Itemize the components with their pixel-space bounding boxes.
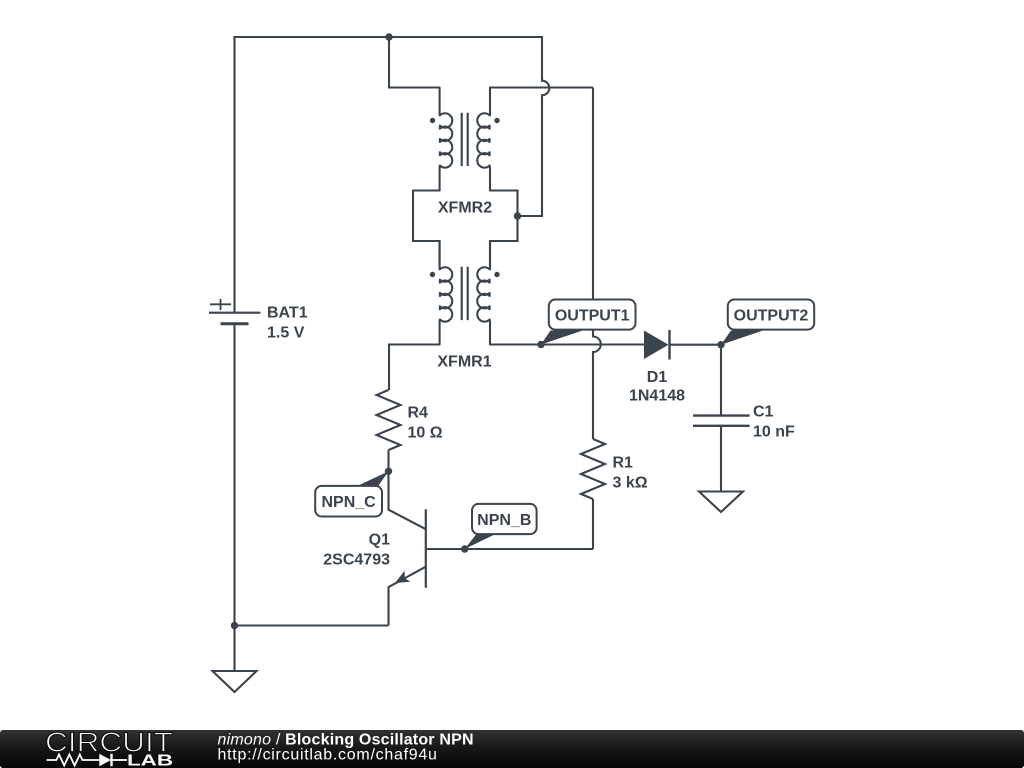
logo resistor diode glyph — [47, 754, 127, 766]
ground right symbol — [699, 492, 743, 513]
svg-text:BAT1: BAT1 — [267, 305, 308, 322]
transistor Q1 emitter arrow — [395, 571, 411, 583]
transformer XFMR1 phase dot left — [430, 272, 435, 277]
svg-text:D1: D1 — [647, 369, 668, 386]
transformer XFMR1 core — [462, 267, 468, 320]
node junction dot top — [385, 33, 392, 40]
svg-text:10 nF: 10 nF — [753, 424, 795, 441]
diode D1 cathode bar — [668, 330, 670, 360]
transistor Q1 collector lead — [389, 471, 426, 529]
resistor R4 — [377, 390, 401, 450]
wire D1 to OUTPUT2 node — [670, 344, 722, 346]
transformer XFMR1 phase dot right — [494, 272, 499, 277]
svg-text:1N4148: 1N4148 — [629, 388, 685, 405]
wire bracket right XFMR2 to XFMR1 — [490, 191, 518, 267]
transformer XFMR2 phase dot right — [494, 118, 499, 123]
wire from top node to XFMR2 left terminal — [389, 37, 440, 88]
transformer XFMR2 right winding — [477, 113, 490, 191]
wire right bus vertical with hop over output wire — [593, 88, 601, 440]
svg-text:2SC4793: 2SC4793 — [323, 552, 390, 569]
svg-text:R4: R4 — [408, 405, 429, 422]
svg-text:NPN_C: NPN_C — [321, 494, 376, 511]
transformer XFMR2 left winding — [440, 88, 453, 191]
transformer XFMR1 right winding — [477, 241, 490, 345]
transformer XFMR2 core — [462, 113, 468, 166]
wire bracket left XFMR2 to XFMR1 — [413, 191, 440, 267]
transistor Q1 base lead — [426, 548, 593, 550]
battery BAT1 top plate — [209, 312, 261, 314]
svg-text:XFMR1: XFMR1 — [437, 354, 491, 371]
wire emitter to battery minus — [235, 624, 389, 626]
flag OUTPUT2 — [721, 300, 814, 345]
flag NPN_B — [465, 504, 537, 549]
ground left stem — [233, 626, 235, 672]
battery BAT1 plus sign — [210, 299, 231, 311]
wire top horizontal — [235, 36, 543, 38]
svg-text:LAB: LAB — [127, 752, 173, 768]
svg-text:C1: C1 — [753, 404, 774, 421]
svg-text:http://circuitlab.com/chaf94u: http://circuitlab.com/chaf94u — [218, 747, 438, 764]
wire R4 to collector node — [387, 450, 389, 471]
wire OUTPUT2 node to C1 — [720, 345, 722, 415]
svg-text:OUTPUT1: OUTPUT1 — [555, 307, 630, 324]
node junction dot right bracket — [514, 212, 521, 219]
capacitor C1 bottom plate — [693, 425, 750, 427]
wire left vertical to battery — [233, 36, 235, 312]
flag NPN_C — [315, 471, 388, 516]
node junction dot NPN_C — [385, 468, 392, 475]
ground left symbol — [213, 671, 257, 692]
node junction dot ground left — [231, 622, 238, 629]
wire XFMR1 right bottom to diode D1 — [490, 343, 644, 345]
capacitor C1 top plate — [693, 414, 750, 416]
wire R1 bottom to base — [592, 499, 594, 549]
transformer XFMR1 left winding — [440, 241, 453, 345]
wire XFMR2 right terminal to right bus — [490, 88, 593, 113]
wire XFMR1 left bottom to R4 — [389, 345, 440, 391]
node junction dot NPN_B — [461, 545, 468, 552]
svg-text:XFMR2: XFMR2 — [438, 200, 492, 217]
svg-text:NPN_B: NPN_B — [477, 512, 531, 529]
svg-text:OUTPUT2: OUTPUT2 — [734, 307, 809, 324]
labels — [267, 200, 795, 569]
diode D1 triangle — [644, 331, 669, 360]
svg-text:10 Ω: 10 Ω — [408, 425, 443, 442]
transformer XFMR2 phase dot left — [430, 118, 435, 123]
node junction dot OUTPUT1 — [537, 341, 544, 348]
svg-text:Q1: Q1 — [369, 532, 390, 549]
node junction dot OUTPUT2 — [717, 341, 724, 348]
svg-text:3 kΩ: 3 kΩ — [613, 475, 648, 492]
transistor Q1 emitter lead — [389, 567, 426, 626]
wire C1 to ground — [720, 426, 722, 492]
transistor Q1 base bar — [425, 509, 427, 588]
wire battery minus down — [233, 325, 235, 626]
footer bar — [0, 727, 1024, 768]
wire top right drop to XFMR2 secondary bracket, hop over primary wire — [518, 36, 550, 216]
flag OUTPUT1 — [541, 300, 636, 345]
battery BAT1 bottom plate — [221, 322, 249, 325]
svg-text:R1: R1 — [613, 455, 634, 472]
svg-text:1.5 V: 1.5 V — [267, 325, 305, 342]
resistor R1 — [581, 439, 605, 499]
